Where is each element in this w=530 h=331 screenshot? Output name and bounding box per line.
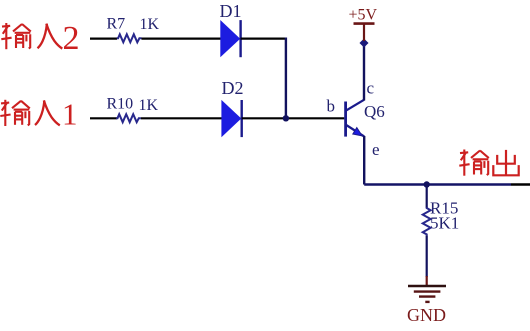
transistor Q6 — [346, 100, 365, 137]
label input1 输入1 — [0, 97, 77, 132]
wire collector up to power — [363, 41, 365, 101]
svg-text:2: 2 — [63, 20, 80, 57]
svg-text:D1: D1 — [220, 1, 242, 21]
junction node (diodes to base) — [283, 115, 289, 121]
svg-text:b: b — [327, 97, 336, 116]
resistor R10 — [116, 114, 141, 122]
svg-text:5K1: 5K1 — [430, 214, 459, 233]
wire corner down to junction — [285, 38, 287, 119]
resistor R15 — [423, 207, 431, 235]
svg-text:c: c — [367, 78, 375, 97]
svg-text:D2: D2 — [222, 78, 244, 98]
ground — [408, 276, 446, 302]
wire junction to R15 — [426, 185, 428, 208]
wire D2 to base — [242, 117, 345, 119]
wire R10 to D2 — [141, 117, 222, 119]
power +5V symbol — [354, 24, 375, 41]
wire R7 to D1 — [142, 37, 222, 39]
label output 输出 — [459, 150, 518, 176]
diode D2 — [221, 100, 241, 137]
junction node (output to R15) — [424, 181, 430, 187]
svg-text:R7: R7 — [107, 16, 126, 33]
svg-text:+5V: +5V — [349, 7, 378, 24]
svg-text:GND: GND — [407, 305, 446, 325]
svg-text:Q6: Q6 — [364, 102, 385, 121]
wire R15 to ground — [426, 235, 428, 277]
wire emitter down — [363, 136, 365, 185]
wire input2 left — [90, 37, 117, 39]
svg-text:1K: 1K — [140, 16, 160, 33]
svg-text:R10: R10 — [107, 96, 134, 113]
svg-text:1K: 1K — [139, 97, 159, 114]
wire D1 to corner — [241, 37, 287, 39]
wire output horizontal — [364, 183, 511, 185]
wire output right end — [511, 183, 530, 185]
wire input1 left — [90, 117, 117, 119]
svg-text:e: e — [372, 140, 380, 159]
power node dot — [359, 38, 368, 47]
resistor R7 — [117, 34, 142, 42]
svg-text:1: 1 — [62, 97, 78, 132]
diode D1 — [220, 20, 240, 57]
label input2 输入2 — [1, 20, 79, 57]
